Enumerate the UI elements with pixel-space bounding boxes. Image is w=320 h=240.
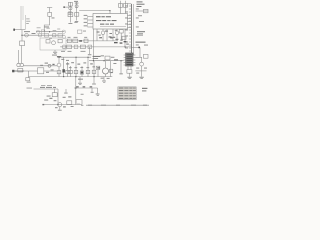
wire drop x121 resistors — [120, 1, 122, 14]
U2 pin stubs — [124, 55, 136, 65]
resistor R21 — [74, 70, 78, 73]
IF top text — [93, 56, 101, 57]
bottom small text — [77, 103, 80, 106]
mixer labels — [44, 26, 49, 29]
resistor R2 — [48, 13, 52, 17]
AF text — [40, 86, 45, 89]
wire jog to line A — [44, 25, 49, 32]
transistor Q9 — [57, 63, 61, 67]
capacitor C7 — [46, 40, 50, 43]
ground G2 — [127, 76, 131, 79]
ground G4 — [78, 82, 82, 85]
wire drop e — [116, 29, 118, 31]
labels along line A — [37, 26, 41, 29]
wire supply chain left — [69, 2, 71, 23]
wire chain upper — [66, 40, 118, 42]
ground G7 — [58, 109, 62, 112]
capacitor C14 — [68, 2, 72, 6]
transistor Q1 — [38, 33, 42, 37]
wire drop a — [96, 29, 98, 41]
U1 inner text — [96, 16, 101, 17]
wire to terminal — [14, 29, 26, 31]
wire Q10 collector — [105, 61, 107, 68]
topright corner text — [137, 1, 143, 2]
wire drop to input — [21, 46, 23, 64]
gang labels — [26, 18, 29, 21]
wire below L4 — [44, 70, 57, 72]
text marks — [24, 1, 113, 80]
transistor Q5 — [62, 45, 66, 49]
wire v x110 — [110, 61, 112, 77]
transistor Q8 — [140, 62, 144, 66]
series mark c — [90, 86, 93, 87]
transistor Q6 — [101, 31, 105, 35]
dash below stub — [64, 92, 67, 95]
transistor Q11 — [58, 103, 62, 107]
pin stub 4 — [88, 26, 93, 28]
wire lower right run — [135, 70, 146, 72]
wire corner small — [136, 35, 143, 37]
U1 pin labels — [84, 14, 87, 17]
table cell shading — [118, 87, 136, 99]
wire drop x93 — [93, 29, 95, 61]
U2 area dashes — [136, 67, 139, 70]
wire Q11 ground — [59, 107, 61, 110]
label dash — [83, 30, 86, 33]
ground drop x80 — [79, 77, 81, 83]
extra density dashes below U1 — [97, 32, 100, 33]
wire below Q8 — [141, 66, 143, 71]
wire IF bottom bus — [29, 76, 113, 78]
IC U2 body — [126, 53, 133, 66]
wire v x67 — [67, 62, 69, 77]
wire bus top link — [128, 3, 132, 5]
label — [144, 44, 148, 47]
wire U1 to bus stubs — [128, 15, 132, 17]
ground G10 — [75, 20, 78, 23]
antenna tick — [47, 7, 52, 9]
wire drop c — [106, 29, 108, 41]
ground G5 — [92, 83, 96, 86]
connector bus second — [133, 4, 135, 55]
variable capacitor C2 — [17, 63, 20, 66]
connector pin ticks — [128, 6, 132, 54]
pin stub 2 — [88, 19, 93, 21]
right side text — [137, 31, 145, 32]
AF cluster enrich — [49, 98, 52, 99]
wire IF rail — [57, 56, 91, 58]
chain labels upper — [68, 36, 71, 39]
arrow feed — [63, 6, 65, 8]
diode D2 — [62, 69, 65, 72]
transistor Q2 — [62, 30, 65, 33]
resistor R3 — [41, 30, 45, 33]
diode D3 — [75, 5, 78, 8]
sub U1 labels — [99, 37, 102, 38]
pin bus left — [87, 15, 89, 27]
resistor R20 — [69, 70, 73, 73]
shield frame — [40, 38, 66, 50]
resistor R25 — [109, 69, 112, 72]
capacitor C8 — [79, 40, 82, 42]
wire drop 2 — [125, 1, 127, 14]
labels IF top — [101, 54, 104, 57]
wire AF vertical — [57, 89, 59, 105]
capacitor C16 — [78, 30, 82, 33]
wire top feed — [79, 11, 110, 14]
dash right — [81, 93, 84, 96]
stub down — [91, 88, 93, 92]
resistor R11 — [119, 30, 123, 33]
wire Q10 emitter — [105, 74, 107, 77]
wire to ground — [97, 88, 99, 93]
resistor R27 — [67, 101, 72, 105]
table cell text — [119, 88, 136, 99]
wire v x76 — [75, 57, 77, 76]
resistor R9 — [80, 45, 85, 49]
ground G0 — [27, 81, 31, 84]
wire corner top right — [136, 10, 148, 12]
transistor Q10 — [103, 68, 109, 74]
wire Q6 emitter — [102, 35, 104, 41]
wire gang stub — [25, 15, 27, 29]
connector pin labels — [125, 6, 139, 49]
wire output run — [74, 87, 98, 89]
series mark a — [76, 86, 79, 87]
wire input bold — [13, 70, 24, 72]
capacitor C13 — [96, 66, 100, 69]
wire below R11 — [120, 33, 122, 41]
resistor R12 — [122, 36, 126, 39]
coil L3 — [58, 39, 62, 43]
wire Q7 emitter — [116, 35, 118, 41]
capacitor C9 — [74, 45, 78, 49]
resistor R7 — [84, 39, 88, 43]
electrolytic C12 — [80, 71, 83, 74]
antenna label — [52, 17, 55, 20]
wire below D2 — [63, 73, 65, 77]
transistor Q7 — [115, 31, 119, 35]
wire left drop — [21, 30, 23, 41]
U2 stripes — [126, 54, 132, 65]
under junction — [119, 72, 122, 75]
diode D1 — [69, 7, 72, 10]
resistor R22 — [86, 70, 90, 73]
wire AF input — [34, 88, 59, 90]
resistor R24 — [92, 70, 96, 73]
capacitor C1 — [25, 33, 29, 37]
supply rail tick — [57, 55, 61, 58]
resistor R10 — [68, 12, 73, 16]
IF labels — [61, 58, 64, 61]
transistor Q3 — [62, 35, 65, 38]
right cluster dashes — [114, 42, 118, 43]
wire line B — [22, 34, 65, 36]
capacitor C10 — [88, 45, 92, 49]
ground G8 — [96, 93, 100, 96]
speaker box — [76, 100, 82, 105]
wire tuning gang vertical — [20, 6, 22, 30]
transistor Q4 — [52, 41, 56, 45]
resistor R16 — [127, 70, 132, 74]
chain labels lower — [61, 50, 65, 53]
ground drop x94 — [93, 77, 95, 84]
copyright line — [86, 105, 149, 106]
wire drop b — [102, 29, 104, 31]
coil L2 — [58, 34, 62, 38]
input arrow — [12, 70, 14, 73]
wire v x98 — [97, 70, 99, 77]
junction dot — [138, 47, 140, 49]
resistor R15 — [144, 9, 149, 13]
wire to U2 — [89, 60, 124, 62]
resistor R19 — [66, 70, 70, 73]
wire stub x66 — [65, 89, 67, 92]
resistor R5 — [67, 39, 71, 43]
label dash — [75, 2, 79, 5]
label dash — [52, 64, 54, 65]
IF band enrich — [66, 63, 69, 64]
wire second drop — [18, 50, 20, 63]
wire v x82 — [81, 66, 83, 77]
junction dots — [21, 10, 125, 105]
wire AF bottom — [44, 104, 76, 106]
capacitor C15 — [75, 13, 79, 17]
wire drop x89 — [89, 47, 91, 54]
resistor R1 — [20, 41, 25, 46]
wire Q9 emitter — [58, 67, 60, 77]
coil L1 — [18, 69, 23, 73]
wire U2 junction drop — [120, 61, 122, 73]
wire right of U2 — [135, 57, 141, 62]
wire v x88 — [87, 57, 89, 76]
ground G3 — [139, 76, 143, 79]
wire gang second — [22, 6, 24, 20]
resistor R26 — [52, 93, 57, 97]
darker text marks — [27, 1, 148, 108]
trimmer C4 — [26, 78, 30, 81]
wire chain lower — [60, 46, 131, 48]
ground drop x104 — [103, 77, 105, 81]
IC U1 body — [93, 14, 128, 30]
ground G1 — [54, 50, 56, 52]
wire drop d — [112, 29, 114, 41]
terminal T1 — [13, 29, 15, 31]
wire input to IF — [24, 65, 58, 67]
resistor R4 — [45, 34, 49, 38]
wire below R2 — [49, 16, 51, 25]
wire branch down — [28, 71, 30, 78]
wire U2 ground — [129, 73, 131, 76]
resistor R8 — [67, 45, 72, 49]
coil L4 — [38, 68, 44, 74]
wire v x63 — [63, 57, 65, 69]
capacitor C6 — [53, 34, 56, 37]
resistor R18 — [57, 71, 61, 74]
resistor R6 — [73, 39, 78, 43]
variable capacitor C3 — [20, 63, 23, 66]
ground G6 — [102, 80, 106, 83]
pin stub 3 — [88, 23, 93, 25]
resistor R23 — [105, 56, 110, 60]
parts table — [118, 87, 136, 100]
pin stub 1 — [88, 16, 93, 18]
capacitor C11 — [48, 64, 51, 67]
wire stub to R26 — [54, 89, 56, 93]
wire lower input run — [24, 70, 38, 72]
series mark b — [83, 86, 86, 87]
right cluster extra — [115, 39, 118, 40]
wire line A — [36, 31, 65, 33]
wire bus tail — [131, 46, 140, 48]
ground G9 — [68, 22, 72, 25]
capacitor C5 — [36, 30, 39, 33]
supply labels — [74, 0, 78, 3]
wire link down — [75, 77, 77, 105]
wire below U2 a — [127, 66, 129, 70]
resistor R17 — [143, 54, 148, 58]
wire antenna drop — [49, 8, 51, 13]
wire Q9 feed — [58, 57, 60, 63]
dash below stub — [91, 91, 94, 94]
wire drop f — [124, 29, 126, 47]
wire v x70 — [70, 66, 72, 77]
wire supply chain right — [76, 2, 78, 21]
wire Q8 ground — [141, 71, 143, 77]
wire below U2 b — [130, 66, 132, 70]
resistor R14 — [124, 3, 128, 7]
wire drop to Q8 stage — [139, 47, 141, 57]
wire v x94 — [93, 61, 95, 77]
connector bus main — [130, 4, 132, 55]
table side text — [142, 88, 147, 92]
resistor R13 — [119, 3, 123, 7]
